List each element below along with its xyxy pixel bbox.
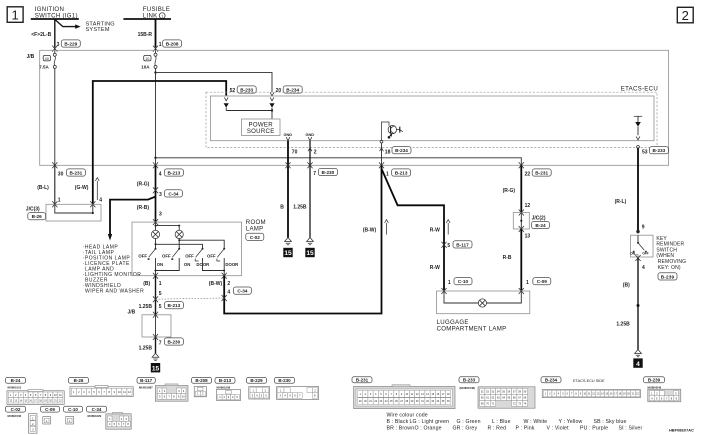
svg-text:C-09: C-09 xyxy=(537,279,548,284)
connector B-231 pinout xyxy=(352,377,372,383)
svg-text:B-239: B-239 xyxy=(661,274,675,279)
wire branch fuse10 to pin 22 B-231 xyxy=(156,158,522,166)
svg-text:5: 5 xyxy=(447,243,450,249)
svg-text:1.25B: 1.25B xyxy=(139,304,153,310)
svg-text:(B): (B) xyxy=(623,283,630,289)
svg-text:1: 1 xyxy=(526,280,529,286)
svg-text:Wire colour code: Wire colour code xyxy=(387,412,428,418)
ground G15c xyxy=(151,353,160,372)
wire colour code legend xyxy=(387,412,643,431)
wire fuse 10 down to pin 4 B-213 xyxy=(155,68,157,165)
svg-text:4: 4 xyxy=(642,265,645,271)
svg-text:B-208: B-208 xyxy=(195,378,208,383)
wire R-L pin 53 lower xyxy=(637,231,639,233)
pin 5 connector B-213 label xyxy=(159,302,184,310)
svg-text:ETACS-ECU SIDE: ETACS-ECU SIDE xyxy=(573,379,605,383)
fuse 10 xyxy=(144,53,157,68)
svg-text:ON: ON xyxy=(157,262,163,267)
svg-text:J/B: J/B xyxy=(27,54,35,60)
switch SW4 OFF/DOOR xyxy=(207,248,239,276)
wire pin 18 down to node xyxy=(381,143,383,165)
pin 52 entry arrow xyxy=(224,97,228,100)
wire B key switch to ground xyxy=(637,258,639,350)
head lamp systems list xyxy=(83,244,145,294)
svg-text:J/B: J/B xyxy=(128,309,136,315)
arrow up beside G-W wire xyxy=(95,178,99,200)
svg-text:KEY: ON): KEY: ON) xyxy=(658,265,681,271)
key reminder switch box xyxy=(631,235,654,257)
switch SW1 OFF/ON xyxy=(138,248,163,276)
pin 7 connector B-230 label xyxy=(159,338,184,346)
wire B-L pin30 to J/C(3) pin 1 xyxy=(54,165,56,204)
junction dot fuse10 upper xyxy=(154,71,156,73)
svg-text:12: 12 xyxy=(525,203,531,209)
svg-text:7.5A: 7.5A xyxy=(39,65,49,70)
svg-text:22: 22 xyxy=(525,171,531,177)
pin 7 connector B-230 label xyxy=(313,168,337,176)
svg-text:1: 1 xyxy=(11,7,18,22)
svg-text:B-24: B-24 xyxy=(535,223,546,228)
wire pin 70 to ground xyxy=(287,141,289,238)
crossing pin 30 at J/B bottom xyxy=(52,162,57,168)
svg-text:1.25B: 1.25B xyxy=(293,204,307,210)
wire R-G pin22 to J/C(2) xyxy=(520,165,522,212)
svg-text:C-34: C-34 xyxy=(168,191,179,196)
svg-text:B-233: B-233 xyxy=(653,148,666,153)
svg-text:B-230: B-230 xyxy=(322,170,335,175)
connector B-213 pinout xyxy=(215,377,235,383)
svg-text:52: 52 xyxy=(230,88,236,94)
svg-text:B-231: B-231 xyxy=(356,378,369,383)
pin 5 connector B-117 label xyxy=(447,241,472,249)
svg-text:4: 4 xyxy=(227,289,230,295)
svg-text:OFF: OFF xyxy=(185,254,194,259)
svg-text:4: 4 xyxy=(99,197,102,203)
connector B-239 pinout xyxy=(644,377,665,383)
fusible link bus bar xyxy=(123,18,171,20)
svg-text:WIPER AND WASHER: WIPER AND WASHER xyxy=(85,288,144,294)
svg-text:1.25B: 1.25B xyxy=(616,322,630,328)
connector B-233 pinout xyxy=(459,377,479,383)
wire inside small J/B xyxy=(155,315,157,337)
crossing C-34 pin 3 xyxy=(153,187,158,193)
ETACS-ECU dashed boundary xyxy=(206,92,657,147)
connector B-229 pinout xyxy=(247,377,267,383)
connector B-234 ETACS-ECU side pinout xyxy=(541,377,561,383)
svg-text:15: 15 xyxy=(306,250,314,257)
crossing C-34 pin 5 xyxy=(153,296,158,302)
fusible link label xyxy=(143,6,170,19)
crossing pin 4 B-213 at J/B bottom xyxy=(153,162,158,168)
ground G4 xyxy=(633,350,642,368)
svg-text:J/C(3): J/C(3) xyxy=(26,206,40,212)
svg-text:B-117: B-117 xyxy=(140,378,153,383)
svg-text:3: 3 xyxy=(159,211,162,217)
key reminder pin 9 circle xyxy=(637,230,640,233)
crossing room lamp pin 1 exit xyxy=(153,273,158,279)
pin 1 connector C-10 label xyxy=(448,278,472,286)
svg-text:70: 70 xyxy=(292,149,298,155)
svg-text:GND: GND xyxy=(305,132,314,137)
wire B-W room lamp pin2 to node 1 B-213 xyxy=(224,165,381,313)
pin 1 connector B-213 label xyxy=(386,169,411,177)
svg-text:SYSTEM: SYSTEM xyxy=(86,27,110,33)
pin 4 connector C-34 label xyxy=(227,287,251,295)
svg-text:2: 2 xyxy=(314,149,317,155)
svg-text:OFF: OFF xyxy=(207,254,216,259)
svg-text:B-213: B-213 xyxy=(168,171,181,176)
svg-text:2: 2 xyxy=(682,8,689,23)
crossing pin 22 B-231 at J/B bottom xyxy=(519,162,524,168)
transistor lamp driver Q1 xyxy=(382,122,403,140)
connector B-24 pinout xyxy=(6,377,26,383)
arrow up on B-W wire xyxy=(385,220,389,235)
svg-text:15: 15 xyxy=(284,250,292,257)
pin 53 label B-233 xyxy=(642,147,668,156)
svg-text:B-24: B-24 xyxy=(11,378,21,383)
wire pin 53 down xyxy=(637,148,639,231)
GND pin label for pin 2 xyxy=(305,132,314,141)
svg-text:(R-L): (R-L) xyxy=(615,199,627,205)
ETACS-ECU box xyxy=(211,96,655,141)
luggage compartment lamp box xyxy=(437,291,530,314)
GND pin label for pin 70 xyxy=(283,132,292,141)
svg-text:R-W: R-W xyxy=(430,228,440,234)
svg-text:B-233: B-233 xyxy=(463,378,476,383)
svg-text:GND: GND xyxy=(283,132,292,137)
svg-text:1: 1 xyxy=(386,171,389,177)
svg-text:15: 15 xyxy=(152,365,160,372)
crossing B-117 pin 5 xyxy=(441,242,446,248)
svg-text:B-231: B-231 xyxy=(70,171,83,176)
svg-text:C-10: C-10 xyxy=(68,407,78,412)
power source box xyxy=(242,119,281,136)
pin 3 connector C-34 label xyxy=(159,190,182,198)
diode D3 key-in chain right side xyxy=(634,116,642,140)
crossing at J/C(3) entry pin4 xyxy=(90,201,95,207)
J/C(2) label B-24 xyxy=(532,215,550,228)
svg-text:MU801508: MU801508 xyxy=(217,386,231,390)
room lamp label C-02 xyxy=(246,219,266,240)
crossing C-34 pin 4 xyxy=(222,295,227,301)
ignition switch bus bar xyxy=(31,18,79,20)
switch SW3 OFF/DOOR xyxy=(185,248,225,272)
svg-text:2: 2 xyxy=(227,281,230,287)
svg-text:1: 1 xyxy=(448,280,451,286)
svg-text:20: 20 xyxy=(276,88,282,94)
connector C-10 pinout xyxy=(64,406,83,412)
svg-text:C-34: C-34 xyxy=(92,407,102,412)
svg-text:ON: ON xyxy=(184,262,190,267)
fuse 40 xyxy=(43,53,56,68)
wire R-B J/C(2) to luggage lamp C-09 xyxy=(520,229,522,291)
crossing room lamp pin 2 exit xyxy=(222,273,227,279)
connector C-34 pinout xyxy=(87,406,107,412)
svg-text:10A: 10A xyxy=(141,65,150,70)
joint connector J/C(3) box xyxy=(46,204,101,221)
page index box 2 xyxy=(677,7,693,22)
wire pin 2 to ground xyxy=(309,141,311,238)
svg-text:(B-W): (B-W) xyxy=(363,228,377,234)
svg-text:C-34: C-34 xyxy=(237,289,248,294)
svg-text:(R-G): (R-G) xyxy=(503,188,516,194)
luggage compartment lamp label xyxy=(437,319,507,333)
svg-text:15B-R: 15B-R xyxy=(138,32,153,38)
svg-text:MU801987: MU801987 xyxy=(139,386,153,390)
connector B-208 pinout xyxy=(192,377,212,383)
svg-text:R-B: R-B xyxy=(503,255,512,261)
pin 3 connector B-229 label xyxy=(57,40,81,48)
svg-text:C-09: C-09 xyxy=(45,407,55,412)
wire 15B-R fusible link to J/B xyxy=(155,19,157,47)
junction dot on ground wire xyxy=(637,304,640,307)
svg-text:HBF08E07AC: HBF08E07AC xyxy=(669,428,694,433)
svg-text:(R-G): (R-G) xyxy=(137,182,150,188)
pin 18 exit circle xyxy=(380,140,383,143)
crossing key reminder pin 4 exit xyxy=(635,255,640,261)
crossing room lamp pin 3 entry xyxy=(153,219,158,225)
crossing at J/C(3) entry pin1 xyxy=(52,201,57,207)
diode join wire xyxy=(226,111,272,120)
connector crossing B-229 at J/B edge xyxy=(52,46,57,52)
connector crossing B-208 at J/B edge xyxy=(153,46,158,52)
pin 20 label B-234 xyxy=(276,86,303,94)
ground G15b xyxy=(305,238,314,258)
svg-text:B-208: B-208 xyxy=(166,42,179,47)
svg-text:18: 18 xyxy=(385,149,391,155)
arrow into pin 20 xyxy=(270,92,274,95)
svg-text:DOOR: DOOR xyxy=(225,262,239,267)
svg-text:1.25B: 1.25B xyxy=(139,345,153,351)
svg-text:(B): (B) xyxy=(143,281,150,287)
wire R-G pin4 down xyxy=(155,165,157,222)
connector C-02 pinout xyxy=(6,406,26,412)
wire branch fuse10 to ETACS pin 20 xyxy=(156,73,273,93)
luggage lamp bulb xyxy=(478,299,486,307)
svg-text:<F>2L-B: <F>2L-B xyxy=(31,32,51,38)
crossing luggage lamp pin C-09 entry xyxy=(519,288,524,294)
svg-text:OFF: OFF xyxy=(642,252,648,256)
dashed link C-34 xyxy=(156,298,225,299)
room lamp internal feed wires xyxy=(155,222,181,230)
svg-text:40: 40 xyxy=(45,57,49,61)
junction dot diodes xyxy=(271,109,273,111)
crossing at small J/B top xyxy=(153,312,158,318)
svg-text:4: 4 xyxy=(636,361,640,368)
thick wire G-W from J/C(3) pin4 up to ETACS pin 52 xyxy=(93,81,226,204)
crossing pin 1 B-213 at J/B bottom xyxy=(379,162,384,168)
room lamp bulb 2 xyxy=(175,230,183,238)
svg-text:B-231: B-231 xyxy=(535,171,548,176)
svg-text:ETACS-ECU: ETACS-ECU xyxy=(621,86,658,93)
pin 52 label B-233 xyxy=(230,86,257,94)
arrow up on pin 18 wire xyxy=(380,148,384,151)
ignition switch IG1 label xyxy=(35,6,78,19)
svg-text:9: 9 xyxy=(642,225,645,231)
svg-text:7: 7 xyxy=(313,171,316,177)
svg-text:30: 30 xyxy=(58,171,64,177)
svg-text:B-117: B-117 xyxy=(456,242,469,247)
svg-text:COMPARTMENT LAMP: COMPARTMENT LAMP xyxy=(437,326,507,333)
svg-text:13: 13 xyxy=(525,233,531,239)
connector B-117 pinout xyxy=(137,377,155,383)
pin 53 exit circle xyxy=(637,146,640,149)
pin 22 connector B-231 label xyxy=(525,169,552,177)
svg-text:B-230: B-230 xyxy=(278,378,291,383)
crossing pin70 at J/B bottom xyxy=(285,162,290,168)
svg-text:(MU803748): (MU803748) xyxy=(460,386,476,390)
svg-text:C-10: C-10 xyxy=(458,279,469,284)
starting system label xyxy=(86,21,115,33)
svg-text:ON: ON xyxy=(630,252,635,256)
pin 20 entry arrow xyxy=(270,97,274,100)
svg-text:MU801506: MU801506 xyxy=(8,414,22,418)
diode D1 under pin 52 xyxy=(224,103,229,110)
svg-text:(G-W): (G-W) xyxy=(75,185,89,191)
svg-text:B-213: B-213 xyxy=(168,303,181,308)
svg-text:53: 53 xyxy=(642,149,648,155)
pin 1 connector B-208 label xyxy=(159,40,182,48)
svg-text:OFF: OFF xyxy=(138,254,147,259)
J/C(3) label xyxy=(26,206,46,220)
wire fuse 40 down to pin 30 xyxy=(54,68,56,165)
diode D2 under pin 20 xyxy=(269,103,274,110)
svg-text:7: 7 xyxy=(159,340,162,346)
svg-text:B-26: B-26 xyxy=(74,378,84,383)
svg-text:MU801629: MU801629 xyxy=(88,414,102,418)
svg-text:5: 5 xyxy=(159,291,162,297)
svg-text:5: 5 xyxy=(159,304,162,310)
svg-text:C-02: C-02 xyxy=(250,235,261,240)
arrow up on pin 2 wire xyxy=(308,148,312,151)
svg-text:B-213: B-213 xyxy=(219,378,232,383)
svg-text:B-234: B-234 xyxy=(286,88,299,93)
svg-text:1: 1 xyxy=(58,197,61,203)
svg-text:B-229: B-229 xyxy=(250,378,263,383)
svg-text:1: 1 xyxy=(159,281,162,287)
svg-text:LAMP: LAMP xyxy=(246,225,264,232)
wire B room lamp pin1 to ground xyxy=(155,276,157,354)
ground G15a xyxy=(283,238,292,258)
arrow up on R-W wire xyxy=(446,220,450,235)
page index box 1 xyxy=(7,7,23,22)
key reminder switch label B-239 xyxy=(656,236,686,280)
connector C-09 pinout xyxy=(41,406,60,412)
key reminder switch internals xyxy=(630,235,648,257)
crossing pin2 at J/B bottom xyxy=(307,162,312,168)
wire ignition to J/B fuse 40 xyxy=(54,19,56,47)
J/C(3) internal bus xyxy=(55,204,94,214)
svg-text:MU804540: MU804540 xyxy=(648,385,662,389)
svg-text:1: 1 xyxy=(159,42,162,48)
svg-text:J/C(2): J/C(2) xyxy=(532,215,546,221)
crossing luggage lamp pin C-10 entry xyxy=(441,288,446,294)
svg-text:SOURCE: SOURCE xyxy=(247,128,275,135)
connector B-26 pinout xyxy=(69,377,89,383)
connector B-230 pinout xyxy=(275,377,295,383)
switch SW2 OFF/ON xyxy=(155,248,191,272)
junction block J/B box xyxy=(40,50,669,165)
svg-text:B-234: B-234 xyxy=(545,378,558,383)
pin 4 connector B-213 label xyxy=(159,169,184,177)
svg-text:B-239: B-239 xyxy=(648,378,661,383)
svg-text:B-213: B-213 xyxy=(395,171,408,176)
svg-text:10: 10 xyxy=(145,57,149,61)
svg-text:C-02: C-02 xyxy=(11,407,21,412)
svg-text:MU801515: MU801515 xyxy=(8,386,22,390)
svg-text:(R-B): (R-B) xyxy=(137,205,150,211)
thick branch node1 to luggage lamp C-10 xyxy=(382,169,445,291)
thick branch to head lamp systems arrow xyxy=(108,197,156,241)
small J/B box lower xyxy=(142,315,171,337)
svg-text:(B-W): (B-W) xyxy=(209,281,223,287)
svg-text:B: B xyxy=(280,204,284,210)
svg-text:B-229: B-229 xyxy=(64,42,77,47)
crossing at small J/B bottom xyxy=(153,334,158,340)
svg-text:3: 3 xyxy=(57,42,60,48)
svg-text:B-233: B-233 xyxy=(240,88,253,93)
room lamp bulb 1 xyxy=(151,230,159,238)
pin 1 connector C-09 label xyxy=(526,278,551,286)
svg-text:4: 4 xyxy=(159,171,162,177)
junction dot fuse10 lower xyxy=(154,157,156,159)
crossing J/C(2) pin 12 xyxy=(519,210,524,216)
luggage lamp internal wiring xyxy=(444,291,521,303)
svg-text:(B-L): (B-L) xyxy=(37,185,49,191)
svg-text:R-W: R-W xyxy=(430,265,440,271)
svg-text:DOOR: DOOR xyxy=(196,262,210,267)
pin 30 connector B-231 label xyxy=(58,169,86,177)
svg-text:B-26: B-26 xyxy=(32,214,43,219)
svg-text:3: 3 xyxy=(159,192,162,198)
pin 18 label B-234 xyxy=(385,147,411,156)
bulb output rails xyxy=(155,239,225,249)
crossing J/C(2) pin 13 xyxy=(519,226,524,232)
svg-text:B-234: B-234 xyxy=(395,148,408,153)
svg-text:B-230: B-230 xyxy=(168,340,181,345)
branch wire to starting system with arrow xyxy=(55,19,81,28)
joint connector J/C(2) box xyxy=(513,213,529,230)
svg-text:OFF: OFF xyxy=(162,254,171,259)
room lamp box xyxy=(132,222,242,276)
